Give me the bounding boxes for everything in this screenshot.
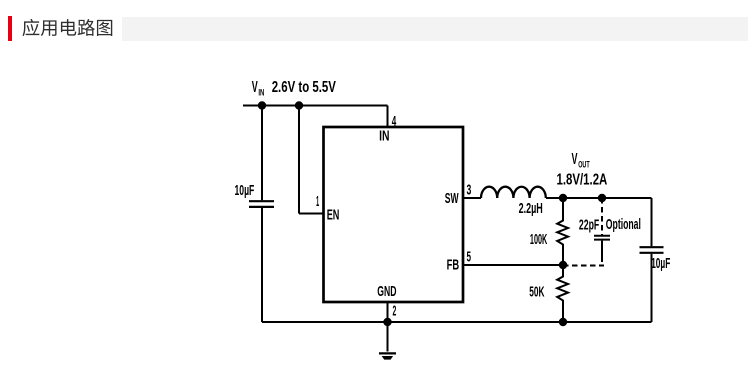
wire EN branch horizontal to pin 1 (299, 213, 324, 215)
wire inductor to output corner (546, 197, 652, 199)
svg-text:4: 4 (392, 113, 397, 130)
node GND rail junction (pin 2) (383, 318, 391, 326)
svg-text:V: V (572, 151, 578, 168)
wire pin 4 drop to IN (387, 106, 389, 128)
svg-text:V: V (252, 79, 258, 96)
node VOUT junction (559, 194, 567, 202)
svg-text:10µF: 10µF (235, 182, 255, 199)
header red accent bar (8, 16, 12, 41)
svg-text:GND: GND (377, 283, 396, 300)
svg-text:OUT: OUT (578, 160, 590, 170)
svg-text:50K: 50K (529, 283, 544, 300)
svg-text:EN: EN (327, 207, 340, 224)
svg-text:10µF: 10µF (651, 255, 670, 272)
wire FB to divider node (463, 264, 563, 266)
node VIN junction 1 (258, 101, 266, 109)
svg-text:3: 3 (467, 182, 472, 199)
label VOUT (557, 151, 608, 188)
svg-text:1: 1 (316, 193, 319, 210)
capacitor C1 10uF plates (249, 201, 274, 207)
wire VIN top rail (243, 105, 388, 107)
wire ground rail bottom (262, 321, 652, 323)
svg-text:2.6V to 5.5V: 2.6V to 5.5V (272, 79, 336, 96)
IC U1 body (324, 127, 464, 302)
svg-text:IN: IN (379, 128, 389, 145)
svg-text:2: 2 (393, 303, 397, 320)
wire pin 2 GND drop (387, 302, 389, 322)
label VIN (252, 79, 336, 98)
node FB divider junction (559, 261, 567, 269)
resistor R2 50K zigzag (557, 265, 568, 322)
wire output cap branch (651, 198, 653, 322)
svg-text:IN: IN (258, 88, 264, 98)
svg-text:2.2µH: 2.2µH (519, 200, 543, 217)
svg-text:SW: SW (445, 190, 459, 207)
ground symbol (379, 353, 396, 359)
header gray bar (122, 17, 748, 41)
svg-text:100K: 100K (530, 231, 547, 248)
node VIN junction 2 (EN tap) (295, 101, 303, 109)
capacitor C2 22pF optional, dashed branch (563, 198, 610, 266)
title 应用电路图 (Application Circuit Diagram) (22, 19, 112, 36)
svg-text:1.8V/1.2A: 1.8V/1.2A (557, 171, 608, 188)
wire SW to inductor (463, 197, 481, 199)
svg-text:FB: FB (447, 257, 460, 274)
svg-text:Optional: Optional (606, 216, 641, 233)
capacitor C3 10uF output plates (640, 247, 664, 253)
node optional-cap tap (598, 194, 606, 202)
node GND rail junction (R2) (559, 318, 567, 326)
resistor R1 100K zigzag (557, 198, 568, 265)
svg-text:22pF: 22pF (579, 216, 599, 233)
wire left branch (input cap to ground rail) (261, 106, 263, 323)
svg-text:5: 5 (467, 249, 472, 266)
wire ground stub below rail (387, 322, 389, 352)
wire EN branch vertical (298, 106, 300, 214)
inductor L1 2.2uH (481, 187, 546, 198)
